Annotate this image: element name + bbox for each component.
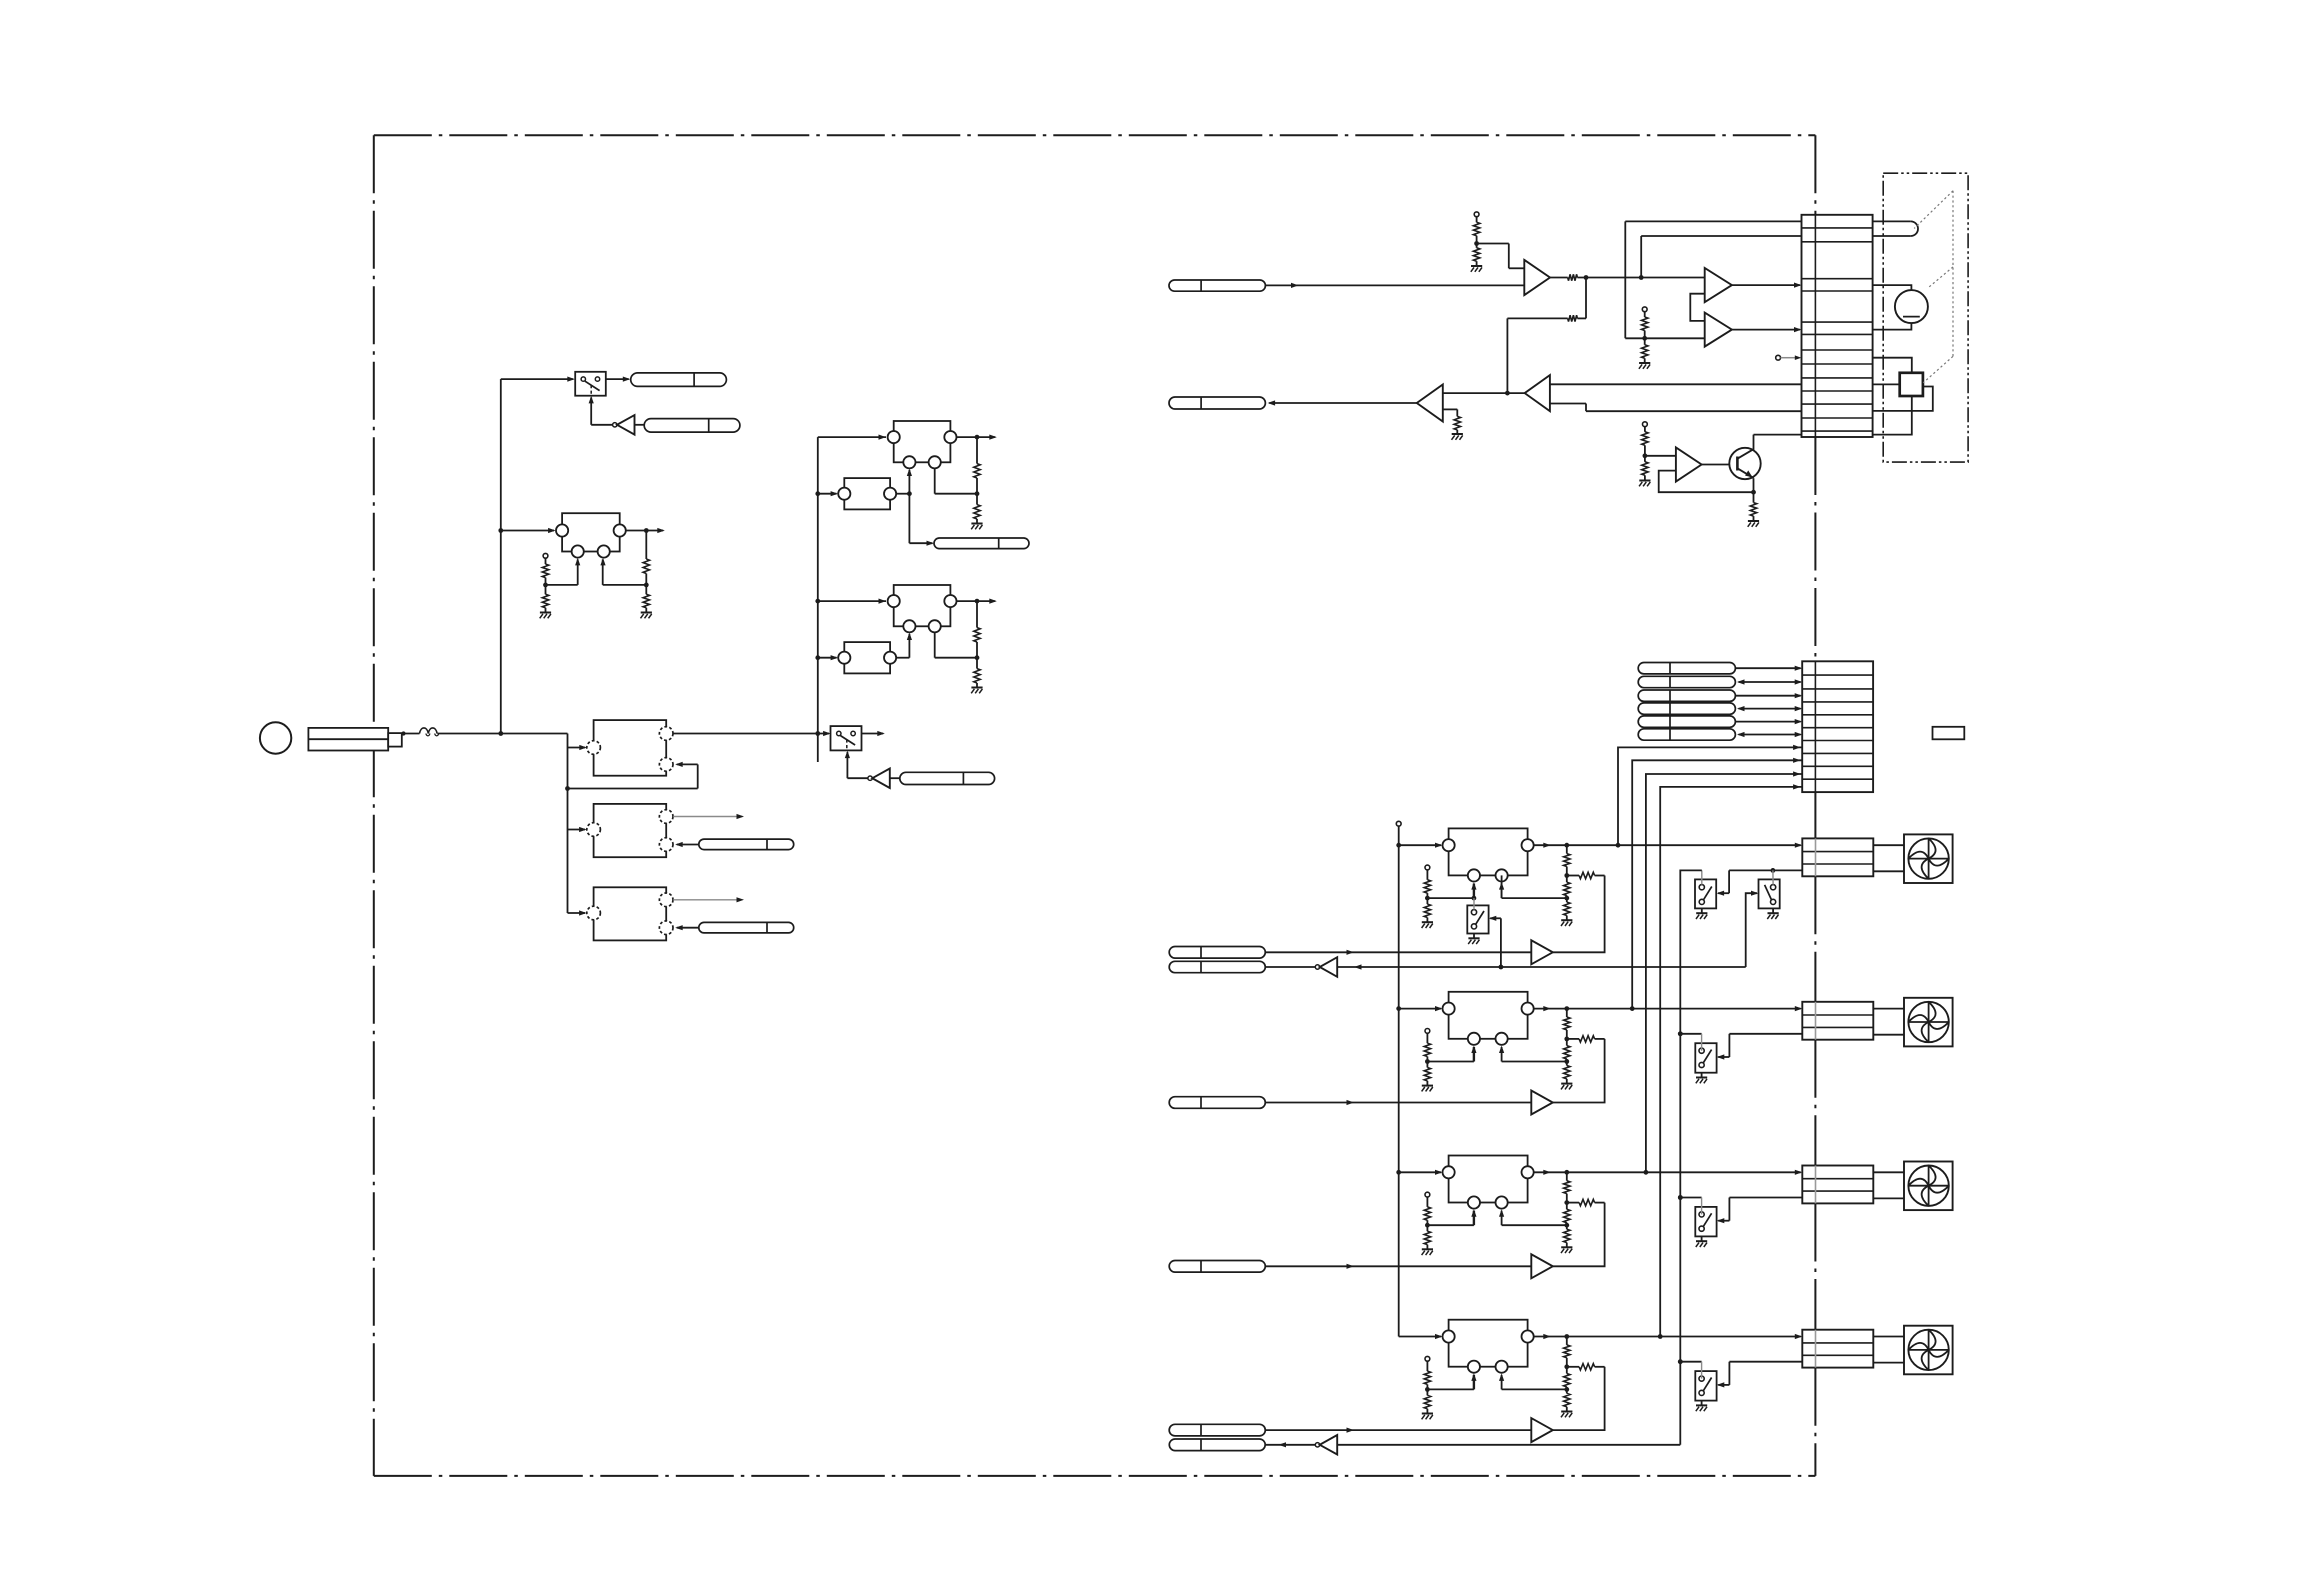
wire: trunk T1 to relay K2 input — [501, 528, 556, 533]
resistor R43 (ch3 left upper) — [1424, 1197, 1430, 1220]
antenna circle — [260, 722, 291, 753]
thermal switch TS1 — [1467, 905, 1488, 933]
inverter U2 — [868, 769, 890, 789]
ground (K2 left) — [540, 613, 551, 619]
wire: A2 output to CN1 — [1732, 283, 1802, 288]
relay K2 — [556, 513, 626, 557]
resistor R15 (A4) — [1454, 416, 1460, 434]
wire: Q1 collector to CN1 — [1754, 435, 1802, 451]
relay K9 (channel 1) — [1443, 828, 1534, 881]
connector label capsule P4 — [699, 922, 794, 933]
external unit box (dash-dot) — [1883, 173, 1968, 462]
wire: K6 output node — [896, 469, 934, 546]
resistor R44 (ch3 left lower) — [1424, 1225, 1430, 1249]
resistor R30 (ch2 right upper) — [1564, 1009, 1570, 1030]
wire: ch2 amp loop — [1553, 1039, 1605, 1103]
wire: CN1 pin1 stub to heater loop — [1873, 220, 1911, 222]
wire: capsule P10 to amp A7 — [1265, 950, 1531, 955]
terminal: open stub at CN1 — [1776, 355, 1802, 360]
ground (K5) — [971, 524, 982, 530]
wire: capsule P2 to inverter U1 — [635, 424, 645, 426]
ground (K2 right) — [641, 613, 652, 619]
buffer A5 (left-pointing) — [1525, 375, 1550, 411]
inverter U4 (ch4 return) — [1315, 1435, 1337, 1455]
node: drop junction ch3 — [1678, 1195, 1683, 1200]
resistor R1 (K2 output divider upper) — [643, 531, 649, 574]
wire: feedback down to A4 output node — [1506, 318, 1508, 393]
driver amp A6 — [1676, 447, 1702, 481]
relay K7 — [888, 585, 957, 632]
terminal: ch1 left pull-up — [1425, 865, 1430, 870]
resistor R24 (ch1 left lower) — [1424, 898, 1430, 922]
node: A3 input junction — [1625, 331, 1704, 341]
wire: K5 output — [957, 435, 997, 440]
node: K5 divider junction — [935, 468, 980, 496]
wire: CN1 to motor M1 (+) — [1873, 285, 1912, 290]
node: K7 divider junction — [935, 632, 980, 660]
resistor R5 (K5 upper) — [974, 437, 980, 478]
connector CN1 — [1802, 215, 1873, 437]
switch S1 — [575, 372, 606, 396]
wire: K3 output (open arrow) — [673, 814, 744, 819]
resistor R4 (K2 left lower) — [542, 585, 548, 613]
buffer A2 — [1705, 268, 1732, 302]
wire: ch4 amp loop — [1553, 1367, 1605, 1430]
wire: A5 output to A4 — [1443, 391, 1525, 396]
resistor R50 (ch4 right upper) — [1564, 1337, 1570, 1358]
enclosure border top (dash-dot) — [374, 134, 1816, 136]
wire: capsule P3 to K3 — [675, 842, 699, 847]
wire: CN2 pin7 bus to channel 1 — [1618, 745, 1802, 845]
relay K11 (channel 3) — [1443, 1156, 1534, 1209]
ground (A1 pull-up) — [1471, 266, 1482, 272]
ground (ch3 left) — [1422, 1249, 1433, 1255]
terminal: ch2 left pull-up — [1425, 1029, 1430, 1034]
wire: trunk T3 to relay K7 — [818, 599, 886, 604]
connector label capsule P9-4 — [1638, 703, 1735, 714]
resistor R40 (ch3 right upper) — [1564, 1172, 1570, 1193]
wire: bus row to TS4 — [1678, 1359, 1802, 1378]
wire: channel 3 input — [1399, 1170, 1443, 1175]
resistor R31 (ch2 right mid) — [1564, 1039, 1570, 1059]
tuner block — [308, 728, 401, 751]
terminal: ch3 left pull-up — [1425, 1192, 1430, 1197]
thermal switch TS2 — [1695, 1043, 1716, 1073]
terminal: pull-up (A1) — [1474, 212, 1479, 217]
connector label capsule P10 — [1169, 947, 1265, 959]
node: ch2 J2 — [1499, 1046, 1569, 1064]
wire: S2 output (open arrow) — [862, 731, 885, 736]
relay K6 — [838, 478, 896, 509]
enclosure border left (dash-dot) — [373, 135, 375, 1476]
connector label capsule P11 — [1169, 1097, 1265, 1109]
wire: CN2 pin10 bus to channel 4 — [1660, 784, 1802, 1336]
wire: channel 2 input — [1399, 1006, 1443, 1011]
wire: loop CN1 pin2 — [1641, 236, 1801, 278]
resistor R10 (A1 pull-up lower) — [1473, 244, 1479, 267]
wire: CN2 to capsule P9-6 — [1737, 732, 1802, 737]
resistor R22 (ch1 right lower) — [1564, 898, 1570, 920]
wire: channel 4 output rail — [1534, 1334, 1803, 1339]
wire: Q1 emitter node — [1659, 471, 1756, 495]
resistor R13 (A3 pull-up upper) — [1642, 312, 1648, 331]
resistor R7 (K7 upper) — [974, 601, 980, 642]
wire: CN2 pin9 bus to channel 3 — [1646, 771, 1802, 1172]
wire: TS4 control — [1717, 1362, 1730, 1388]
op-amp A1 — [1524, 260, 1550, 295]
node: ch4 J1 + feedback resistor — [1564, 1358, 1604, 1370]
wire: ch3 amp loop — [1553, 1203, 1605, 1267]
wire: K7 output — [957, 599, 997, 604]
resistor R6 (K5 lower) — [974, 494, 980, 524]
node: drop junction ch4 — [1678, 1359, 1683, 1364]
ground (A6 pull-up) — [1639, 481, 1650, 487]
ground (SW-B) — [1767, 908, 1778, 919]
relay K4 — [587, 887, 673, 940]
wire: A6 output to Q1 base — [1702, 464, 1738, 466]
wire: K1 feedback loop — [565, 748, 698, 791]
node: K2 left junction — [543, 558, 580, 587]
wire: CN1 to S3 top — [1873, 358, 1912, 373]
wire: loop CN1 pin1 — [1625, 221, 1801, 338]
connector label capsule P1 — [631, 373, 727, 387]
resistor R9 (A1 pull-up upper) — [1473, 217, 1479, 236]
node: K2 right divider junction — [600, 558, 648, 587]
resistor R54 (ch4 left lower) — [1424, 1389, 1430, 1413]
wire: A5 input upper from CN1 — [1550, 383, 1802, 385]
connector label capsule P9-3 — [1638, 690, 1735, 701]
connector label capsule P9-1 — [1638, 663, 1735, 674]
connector label capsule P8 — [1169, 397, 1265, 409]
connector label capsule P9-5 — [1638, 716, 1735, 727]
resistor R33 (ch2 left upper) — [1424, 1033, 1430, 1056]
connector label capsule P2 — [644, 419, 740, 433]
wire: relay K2 output — [626, 528, 665, 533]
wire: fan 4 stubs — [1873, 1337, 1904, 1363]
connector label capsule P13 — [1169, 1424, 1265, 1436]
wire: ch1 return line — [1265, 891, 1758, 970]
wire: A1 output node to buffer A2 — [1577, 275, 1704, 280]
wire: CN2 to capsule P9-4 — [1737, 706, 1802, 711]
ground (ch4 left) — [1422, 1414, 1433, 1420]
op-amp A10 (channel 4) — [1531, 1418, 1553, 1442]
relay K10 (channel 2) — [1443, 992, 1534, 1045]
wire: capsule P9-5 to CN2 — [1735, 719, 1802, 724]
fan motor FM1 — [1904, 834, 1953, 883]
relay K12 (channel 4) — [1443, 1320, 1534, 1373]
terminal block TB1 (small box) — [1933, 727, 1965, 740]
wire: channel 4 input — [1399, 1334, 1443, 1339]
thermal switch TS4 — [1695, 1371, 1716, 1401]
connector label capsule P5 — [934, 538, 1029, 549]
node: ch1 J2 — [1499, 882, 1569, 900]
wire: bus row to TS3 — [1678, 1195, 1802, 1214]
connector CN5 (fan 3) — [1802, 1166, 1873, 1204]
resistor R21 (ch1 right mid) — [1564, 876, 1570, 896]
node: A6 input junction — [1643, 445, 1676, 458]
ground (TS1) — [1468, 934, 1479, 945]
wire: A1 feedback — [1577, 278, 1586, 319]
ground (ch3 right) — [1561, 1247, 1572, 1253]
resistor R12 (A1 feedback) — [1507, 315, 1577, 321]
wire: capsule P13 to amp A10 — [1265, 1428, 1531, 1433]
node: ch3 J1 + feedback resistor — [1564, 1194, 1604, 1206]
wire: inverter U2 to S2 control — [845, 751, 868, 779]
wire: trunk up-left (node T1) — [498, 377, 574, 734]
wire: SW-A top loop to long drop — [1680, 870, 1702, 1444]
wire: S1 output — [606, 377, 631, 382]
wire: capsule P11 to amp A8 — [1265, 1100, 1531, 1105]
connector label capsule P14 (ch1 return) — [1169, 961, 1265, 972]
resistor R52 (ch4 right lower) — [1564, 1389, 1570, 1411]
connector label capsule P12 — [1169, 1261, 1265, 1273]
wire: channel 3 output rail — [1534, 1170, 1803, 1175]
sensor S3 (square) — [1900, 373, 1923, 396]
wire: ch1 relay drop to return line — [1501, 875, 1503, 898]
ground (Q1 emitter) — [1748, 521, 1759, 527]
wire: TS1 control — [1489, 916, 1501, 967]
connector label capsule P3 — [699, 839, 794, 850]
wire: capsule P9-1 to CN2 — [1735, 666, 1802, 671]
node: ch1 left junction — [1425, 882, 1477, 900]
connector CN2 — [1802, 661, 1873, 792]
relay K1 (main line) — [587, 720, 673, 776]
wire: A3 output to CN1 — [1732, 327, 1802, 332]
wire: fan 3 stubs — [1873, 1172, 1904, 1198]
wire: capsule P12 to amp A9 — [1265, 1264, 1531, 1269]
wire: CN1 to S3 left — [1873, 383, 1900, 385]
wire: TS2 control — [1717, 1034, 1730, 1060]
resistor R14 (A3 pull-up lower) — [1642, 338, 1648, 363]
ground (ch2 right) — [1561, 1084, 1572, 1090]
connector label capsule P7 — [1169, 280, 1265, 291]
fan motor FM3 — [1904, 1162, 1953, 1211]
resistor R32 (ch2 right lower) — [1564, 1062, 1570, 1084]
wire: capsule P4 to K4 — [675, 925, 699, 930]
resistor R11 (A1 output) — [1550, 274, 1577, 280]
wire: trunk T3 to relay K8 — [818, 655, 838, 660]
motor M1 — [1895, 290, 1928, 323]
wire: A2-A3 link bracket — [1690, 294, 1704, 321]
inverter U3 (ch1 return) — [1315, 957, 1337, 977]
wire: K8 output riser — [896, 633, 912, 658]
wire: capsule P6 to inverter U2 — [890, 777, 900, 779]
connector label capsule P6 — [900, 772, 995, 784]
op-amp A8 (channel 2) — [1531, 1091, 1553, 1115]
wire: CN1 to S3 right — [1873, 387, 1933, 411]
wire: fan1 row3 — [1729, 868, 1802, 873]
connector CN3 (fan 1) — [1802, 838, 1873, 876]
wire: capsule P9-3 to CN2 — [1735, 693, 1802, 698]
wire: ch1 left junction to TS1 — [1473, 898, 1475, 910]
wire: A5 input lower from CN1 — [1550, 404, 1802, 412]
wire: channel trunk — [1396, 826, 1401, 1336]
resistor R20 (ch1 right upper) — [1564, 845, 1570, 866]
resistor R34 (ch2 left lower) — [1424, 1062, 1430, 1086]
node: ch4 J2 — [1499, 1373, 1569, 1391]
ground (ch4 right) — [1561, 1412, 1572, 1418]
node: drop junction ch2 — [1678, 1031, 1683, 1036]
thermal switch TS3 — [1695, 1207, 1716, 1237]
wire: fan 1 stubs — [1873, 845, 1904, 871]
relay K3 — [587, 804, 673, 857]
resistor R51 (ch4 right mid) — [1564, 1367, 1570, 1387]
op-amp A9 (channel 3) — [1531, 1254, 1553, 1278]
relay K5 — [888, 421, 957, 468]
wire: fan 2 stubs — [1873, 1009, 1904, 1035]
inductor L1 on main rail — [402, 728, 439, 736]
enclosure border bottom (dash-dot) — [374, 1475, 1816, 1477]
ground (ch1 right) — [1561, 920, 1572, 926]
wire: SW-B top stem — [1772, 870, 1774, 884]
ground (ch1 left) — [1422, 922, 1433, 928]
wire: trunk T3 — [815, 435, 886, 763]
door switch SW-B — [1759, 879, 1780, 908]
wire: S3 bottom to CN1 — [1873, 396, 1912, 435]
wire: trunk T3 to relay K6 — [818, 491, 838, 496]
wire: CN1 pin2 stub to heater loop — [1873, 235, 1911, 237]
buffer A4 (left-pointing) — [1417, 385, 1443, 422]
resistor R17 (A6 pull-up lower) — [1642, 456, 1648, 481]
resistor R42 (ch3 right lower) — [1564, 1225, 1570, 1247]
wire: motor M1 (-) to CN1 — [1873, 323, 1912, 330]
relay K8 — [838, 642, 896, 673]
node: ch4 left junction — [1425, 1373, 1477, 1391]
ground (K7) — [971, 688, 982, 694]
wire: TS3 control — [1717, 1198, 1730, 1224]
wire: CN2 to capsule P9-2 — [1737, 679, 1802, 684]
enclosure border right (dash-dot, segments between connectors) — [1814, 135, 1816, 1476]
ground (SW-A) — [1696, 908, 1707, 919]
panel perspective dotted lines — [1914, 191, 1953, 383]
wire: trunk down to K3 and K4 inputs — [568, 789, 587, 916]
connector label capsule P15 (ch4 return) — [1169, 1439, 1265, 1451]
resistor R18 (Q1 emitter) — [1750, 492, 1756, 521]
wire: channel 1 input — [1399, 843, 1443, 848]
ground (ch2 left) — [1422, 1086, 1433, 1092]
node: ch1 J1 + feedback resistor — [1564, 867, 1604, 879]
wire: channel 1 output rail — [1534, 843, 1803, 848]
fan motor FM4 — [1904, 1326, 1953, 1375]
node: ch3 J2 — [1499, 1209, 1569, 1227]
node: ch2 J1 + feedback resistor — [1564, 1030, 1604, 1042]
ground (A4) — [1452, 434, 1463, 440]
wire: A4 output to capsule P8 — [1268, 400, 1417, 405]
connector label capsule P9-2 — [1638, 676, 1735, 687]
resistor R16 (A6 pull-up upper) — [1642, 427, 1648, 446]
resistor R2 (K2 output divider lower) — [643, 585, 649, 613]
door switch SW-A — [1695, 879, 1716, 908]
switch S2 — [831, 726, 862, 750]
resistor R53 (ch4 left upper) — [1424, 1361, 1430, 1384]
ground (TS3) — [1696, 1236, 1707, 1247]
node: ch2 left junction — [1425, 1046, 1477, 1064]
wire: channel 2 output rail — [1534, 1006, 1803, 1011]
resistor R8 (K7 lower) — [974, 658, 980, 688]
wire: K1 output to S2 — [673, 731, 830, 736]
ground (TS2) — [1696, 1073, 1707, 1084]
inverter U1 — [613, 415, 635, 435]
fan motor FM2 — [1904, 998, 1953, 1047]
terminal: pull-up open circle (K2 left) — [543, 553, 548, 558]
terminal: ch4 left pull-up — [1425, 1356, 1430, 1361]
connector CN6 (fan 4) — [1802, 1330, 1873, 1368]
wire: bus row to TS2 — [1678, 1031, 1802, 1050]
node: ch3 left junction — [1425, 1209, 1477, 1227]
wire: SW-A control — [1717, 870, 1730, 895]
buffer A3 — [1705, 313, 1732, 347]
terminal: pull-up (A6) — [1643, 422, 1648, 427]
transistor Q1 — [1729, 448, 1760, 479]
connector CN4 (fan 2) — [1802, 1002, 1873, 1040]
resistor R41 (ch3 right mid) — [1564, 1203, 1570, 1223]
wire: ch1 amp loop — [1553, 876, 1605, 953]
wire: K4 output (open arrow) — [673, 897, 744, 902]
wire: main rail from tuner to relay K1 elbow — [401, 731, 586, 750]
wire: CN2 pin8 bus to channel 2 — [1632, 758, 1802, 1009]
wire: ch4 return line — [1265, 1442, 1680, 1447]
heater element loop — [1911, 221, 1918, 236]
terminal: pull-up (A3) — [1642, 307, 1647, 312]
connector label capsule P9-6 — [1638, 729, 1735, 740]
wire: capsule P7 to comparator A1 — [1265, 283, 1524, 288]
resistor R23 (ch1 left upper) — [1424, 870, 1430, 893]
op-amp A7 (channel 1) — [1531, 940, 1553, 964]
wire: inverter U1 to S1 control — [589, 396, 613, 425]
wire: A4 lower input to ground — [1443, 409, 1458, 416]
terminal: channel trunk pull-up — [1396, 821, 1401, 826]
resistor R3 (K2 left upper) — [542, 558, 548, 577]
ground (TS4) — [1696, 1401, 1707, 1412]
node: A1 pull-up junction — [1474, 236, 1524, 269]
ground (A3 pull-up) — [1639, 363, 1650, 369]
